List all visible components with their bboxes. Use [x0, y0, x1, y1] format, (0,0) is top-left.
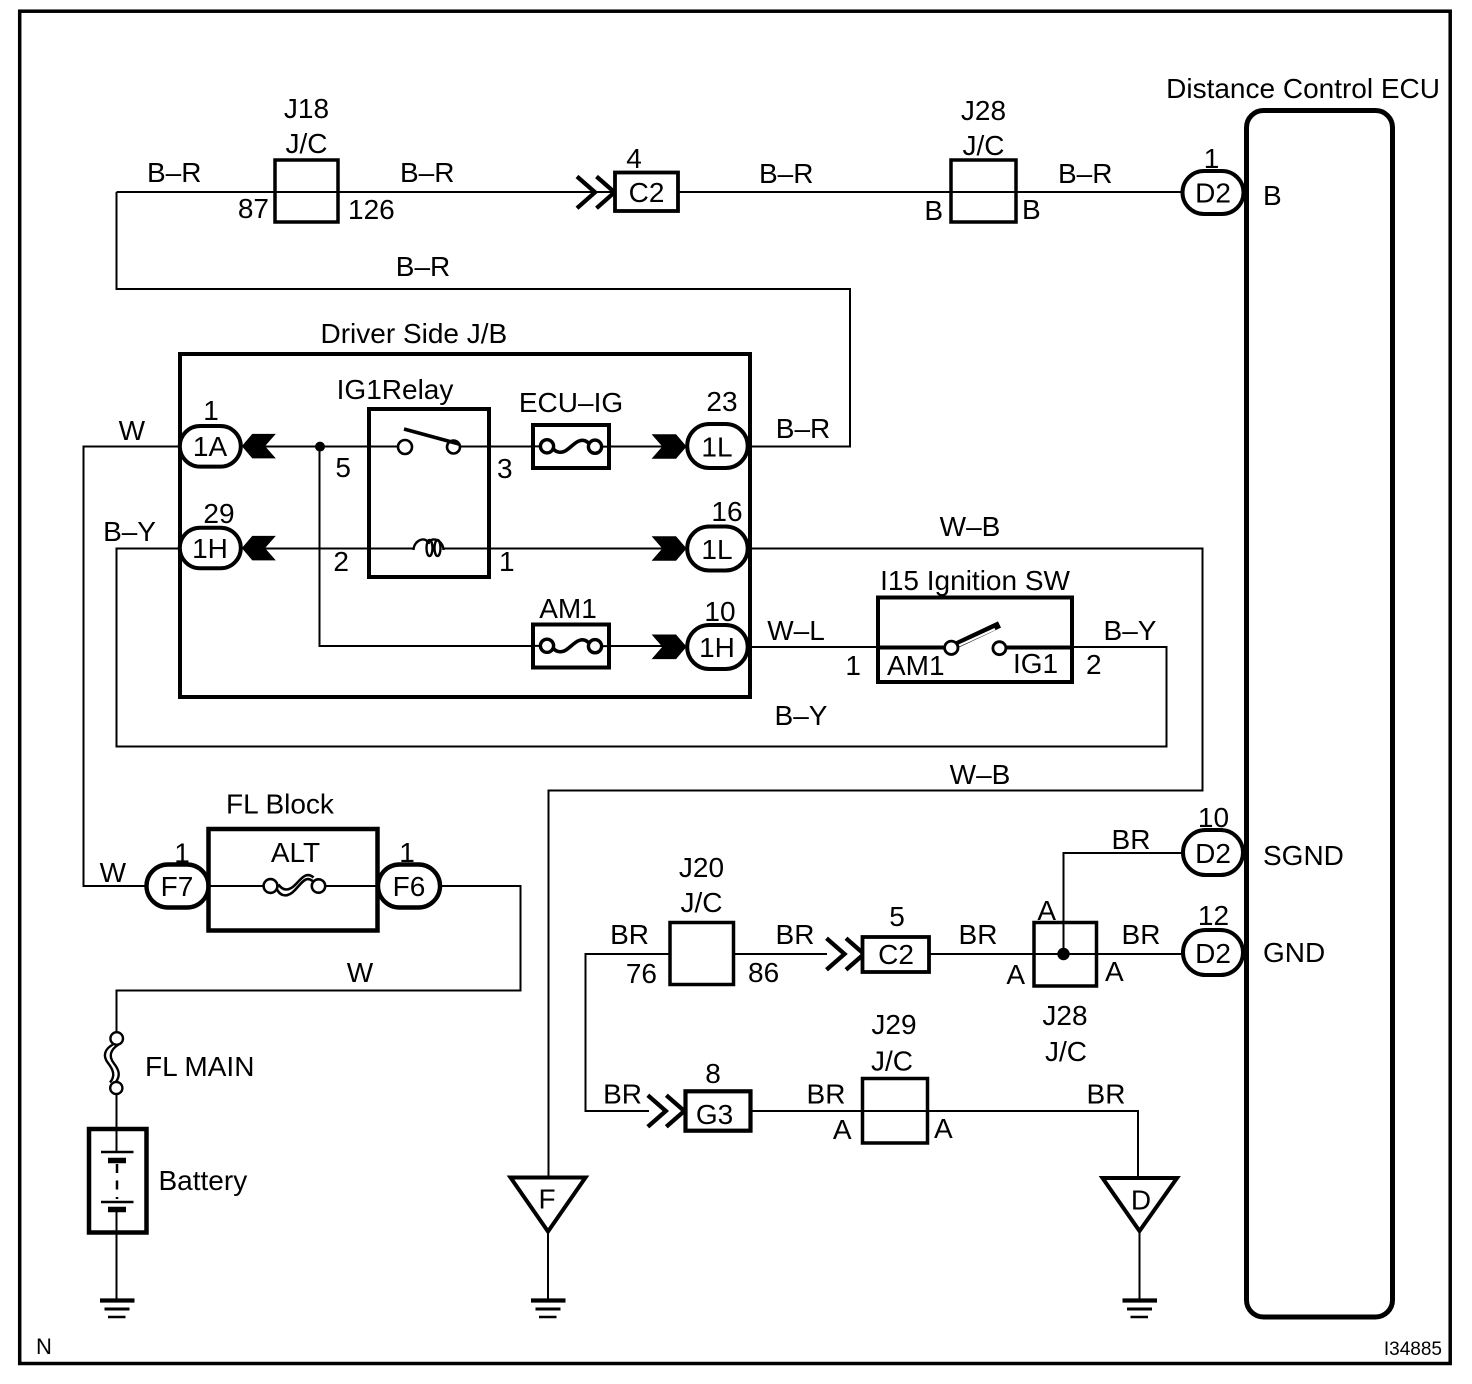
svg-text:1A: 1A [193, 431, 228, 462]
svg-text:J28: J28 [961, 95, 1006, 126]
svg-text:B–R: B–R [759, 158, 813, 189]
ignition switch box [878, 598, 1072, 683]
connector C2 bottom [863, 937, 930, 972]
svg-text:B–R: B–R [1058, 158, 1112, 189]
wire B-R branch down-right to 1L(23) [117, 192, 851, 447]
svg-text:86: 86 [748, 957, 779, 988]
connector C2 top [615, 173, 678, 212]
svg-text:J/C: J/C [1045, 1036, 1087, 1067]
svg-text:ECU–IG: ECU–IG [519, 387, 623, 418]
wire D to ground [1139, 1231, 1141, 1299]
svg-text:1: 1 [203, 395, 219, 426]
wire row3 to arrow [609, 645, 663, 647]
arrow left row2 [242, 536, 276, 561]
svg-text:BR: BR [959, 919, 998, 950]
junction dot J28 [1057, 948, 1069, 960]
ignition lever [956, 625, 1000, 646]
wire row1 to arrow [609, 446, 663, 448]
wire into AM1 contact [878, 646, 945, 650]
svg-text:G3: G3 [696, 1099, 733, 1130]
FL Block box [209, 829, 378, 931]
ground battery [100, 1301, 135, 1318]
svg-text:B–Y: B–Y [103, 516, 156, 547]
svg-text:2: 2 [1086, 649, 1102, 680]
ground point D triangle [1103, 1178, 1178, 1231]
wire J28 up to SGND [1064, 853, 1184, 954]
svg-text:5: 5 [335, 452, 351, 483]
junction J18 J/C [275, 160, 338, 222]
svg-text:A: A [1006, 959, 1025, 990]
connector 1L(23) [687, 424, 748, 468]
connector 1L(16) [687, 527, 748, 571]
wire into battery [116, 1094, 118, 1152]
svg-text:5: 5 [889, 901, 905, 932]
svg-text:F: F [538, 1184, 555, 1215]
battery plate long bottom [101, 1201, 134, 1204]
svg-text:W: W [347, 957, 374, 988]
svg-text:B: B [1022, 194, 1041, 225]
relay switch blade [404, 429, 459, 444]
svg-text:8: 8 [705, 1058, 721, 1089]
wire B-R top main [117, 191, 1183, 193]
wire W-B from 1L(16) to F triangle [549, 549, 1203, 1178]
fuse ALT [264, 875, 326, 895]
wire BR J20 to C2 [734, 953, 828, 955]
svg-text:J20: J20 [679, 852, 724, 883]
svg-text:B–Y: B–Y [1104, 615, 1157, 646]
ground F [531, 1301, 566, 1318]
wire row2 coil [264, 548, 663, 550]
svg-text:D2: D2 [1195, 838, 1231, 869]
wire from dot down to AM1 row [320, 447, 542, 647]
svg-text:A: A [934, 1113, 953, 1144]
svg-text:76: 76 [626, 958, 657, 989]
svg-text:C2: C2 [629, 177, 665, 208]
svg-text:D2: D2 [1195, 938, 1231, 969]
connector D2 SGND [1183, 830, 1243, 875]
svg-text:B–Y: B–Y [775, 700, 828, 731]
svg-text:W: W [119, 415, 146, 446]
connector G3 [686, 1091, 751, 1130]
svg-text:B–R: B–R [396, 251, 450, 282]
svg-text:N: N [36, 1334, 52, 1359]
wire inside FL block [208, 885, 378, 887]
svg-text:IG1: IG1 [1013, 648, 1058, 679]
svg-text:Distance Control ECU: Distance Control ECU [1166, 73, 1440, 104]
svg-text:AM1: AM1 [539, 593, 597, 624]
connector arrows before C2 [577, 177, 615, 209]
ignition contact IG1 [993, 642, 1006, 655]
svg-text:W–B: W–B [950, 759, 1011, 790]
ignition contact AM1 [945, 641, 958, 654]
wire B-Y from 1H(29) down around to ignition switch [117, 549, 1167, 747]
svg-text:W–B: W–B [940, 511, 1001, 542]
svg-text:Battery: Battery [159, 1165, 248, 1196]
junction J20 box [670, 923, 734, 985]
svg-text:IG1Relay: IG1Relay [337, 374, 454, 405]
svg-text:126: 126 [348, 194, 395, 225]
wire BR from J20 left down to G3 arrows [586, 954, 671, 1111]
ground point F triangle [511, 1178, 586, 1232]
svg-text:4: 4 [626, 143, 642, 174]
battery dashed center [116, 1164, 119, 1199]
connector arrows before C2 bottom [827, 938, 865, 970]
fuse AM1 [533, 625, 609, 668]
svg-text:BR: BR [776, 919, 815, 950]
svg-text:BR: BR [610, 919, 649, 950]
wire F to ground [547, 1232, 549, 1299]
wire W from F6 down to battery [117, 886, 521, 1032]
svg-text:B: B [924, 195, 943, 226]
Driver Side J/B box [180, 354, 750, 697]
svg-text:3: 3 [497, 453, 513, 484]
svg-text:I15 Ignition SW: I15 Ignition SW [880, 565, 1070, 596]
svg-text:D: D [1131, 1185, 1151, 1216]
relay coil [414, 539, 444, 556]
svg-text:1: 1 [845, 650, 861, 681]
wire G3 to J29 to D [751, 1111, 1139, 1178]
svg-text:1L: 1L [701, 534, 732, 565]
wire W from 1A down to F7 [84, 447, 181, 887]
battery box [89, 1129, 147, 1233]
arrow right into 1L(23) [652, 434, 687, 459]
svg-text:B–R: B–R [147, 157, 201, 188]
junction J29 box [863, 1079, 928, 1144]
connector F6 [378, 865, 440, 908]
wire battery to ground [116, 1210, 118, 1299]
svg-text:J/C: J/C [286, 128, 328, 159]
svg-text:23: 23 [706, 386, 737, 417]
svg-text:1H: 1H [699, 632, 735, 663]
connector 1A [180, 426, 241, 467]
svg-text:BR: BR [1122, 919, 1161, 950]
svg-text:F7: F7 [161, 871, 194, 902]
connector 1H(10) [687, 625, 748, 669]
wire IG1 to box edge [1006, 646, 1072, 650]
svg-text:J18: J18 [284, 93, 329, 124]
connector D2 GND [1183, 930, 1243, 975]
connector D2 pin1 [1183, 171, 1244, 214]
arrow left row1 [242, 434, 276, 459]
Distance Control ECU box [1247, 111, 1393, 1318]
svg-text:W: W [100, 857, 127, 888]
svg-text:B: B [1263, 180, 1282, 211]
svg-text:Driver Side J/B: Driver Side J/B [321, 318, 508, 349]
svg-text:16: 16 [711, 496, 742, 527]
svg-text:BR: BR [1087, 1079, 1126, 1110]
svg-text:I34885: I34885 [1384, 1339, 1442, 1360]
svg-text:W–L: W–L [767, 615, 825, 646]
svg-text:10: 10 [704, 596, 735, 627]
svg-text:1: 1 [499, 546, 515, 577]
svg-text:B–R: B–R [776, 413, 830, 444]
svg-text:F6: F6 [393, 871, 426, 902]
svg-text:2: 2 [333, 546, 349, 577]
wire W-L to ignition switch [748, 646, 945, 648]
svg-text:BR: BR [603, 1079, 642, 1110]
svg-text:A: A [833, 1114, 852, 1145]
IG1 relay box [369, 409, 489, 577]
svg-text:A: A [1037, 895, 1056, 926]
junction J28 bottom box [1034, 923, 1097, 987]
svg-text:J29: J29 [871, 1009, 916, 1040]
svg-text:J28: J28 [1042, 1000, 1087, 1031]
svg-text:BR: BR [807, 1079, 846, 1110]
battery plate long top [101, 1151, 134, 1154]
svg-text:29: 29 [203, 498, 234, 529]
svg-text:AM1: AM1 [887, 650, 945, 681]
svg-text:SGND: SGND [1263, 840, 1344, 871]
wire C2 to J28 to GND D2 [929, 953, 1183, 955]
battery plate short bottom [108, 1207, 126, 1213]
svg-text:C2: C2 [878, 939, 914, 970]
svg-text:BR: BR [1112, 824, 1151, 855]
svg-text:J/C: J/C [963, 130, 1005, 161]
svg-text:FL Block: FL Block [226, 789, 335, 820]
svg-text:87: 87 [238, 193, 269, 224]
svg-text:1H: 1H [192, 533, 228, 564]
fusible link FL MAIN [105, 1032, 123, 1094]
ground D [1123, 1301, 1158, 1318]
svg-text:A: A [1105, 956, 1124, 987]
arrow right into 1H(10) [652, 635, 687, 660]
svg-text:GND: GND [1263, 937, 1325, 968]
arrow right into 1L(16) [652, 536, 687, 561]
fuse ECU-IG [533, 425, 609, 468]
junction J28 J/C top [951, 160, 1016, 222]
svg-text:ALT: ALT [271, 837, 320, 868]
battery plate short top [108, 1158, 126, 1164]
svg-text:J/C: J/C [681, 887, 723, 918]
connector arrows before G3 [648, 1095, 685, 1126]
connector F7 [147, 865, 209, 908]
svg-text:FL MAIN: FL MAIN [145, 1051, 254, 1082]
svg-text:B–R: B–R [400, 157, 454, 188]
junction dot [315, 442, 325, 452]
connector 1H(29) [180, 528, 241, 569]
wire row1 inside J/B [264, 446, 541, 448]
svg-text:12: 12 [1198, 900, 1229, 931]
relay switch contact left [398, 440, 412, 454]
svg-text:D2: D2 [1195, 178, 1231, 209]
relay switch contact right [447, 441, 460, 454]
svg-text:1L: 1L [701, 432, 732, 463]
svg-text:J/C: J/C [871, 1046, 913, 1077]
